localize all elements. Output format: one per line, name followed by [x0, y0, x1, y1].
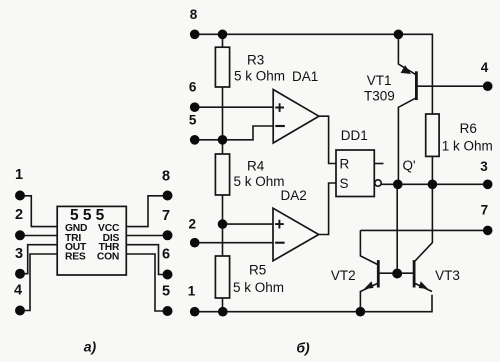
- svg-text:VT2: VT2: [331, 268, 356, 283]
- svg-text:555: 555: [70, 207, 108, 224]
- svg-text:DA1: DA1: [292, 69, 318, 84]
- svg-text:7: 7: [481, 202, 489, 217]
- svg-text:5: 5: [162, 284, 170, 300]
- svg-text:1 k Ohm: 1 k Ohm: [442, 139, 493, 154]
- svg-text:R: R: [340, 157, 350, 172]
- svg-text:DD1: DD1: [341, 128, 368, 143]
- svg-text:VT3: VT3: [435, 268, 460, 283]
- svg-text:VT1: VT1: [367, 73, 392, 88]
- svg-text:R6: R6: [460, 121, 477, 136]
- svg-text:R3: R3: [247, 53, 264, 68]
- svg-text:CON: CON: [97, 252, 119, 263]
- svg-text:RES: RES: [65, 252, 86, 263]
- svg-text:1: 1: [15, 167, 23, 183]
- svg-text:6: 6: [162, 247, 170, 263]
- svg-text:DA2: DA2: [281, 188, 307, 203]
- svg-text:5 k Ohm: 5 k Ohm: [234, 69, 285, 84]
- svg-text:3: 3: [480, 159, 488, 174]
- svg-text:S: S: [340, 176, 349, 191]
- svg-text:б): б): [296, 340, 310, 356]
- svg-text:2: 2: [15, 207, 23, 223]
- svg-text:R5: R5: [249, 262, 266, 277]
- svg-text:4: 4: [14, 283, 22, 299]
- svg-text:a): a): [84, 339, 97, 355]
- svg-text:1: 1: [188, 283, 196, 298]
- svg-text:T309: T309: [364, 88, 395, 103]
- svg-text:3: 3: [15, 246, 23, 262]
- svg-text:2: 2: [189, 217, 197, 232]
- svg-text:8: 8: [190, 7, 198, 22]
- svg-text:5: 5: [189, 112, 197, 127]
- svg-text:6: 6: [189, 79, 197, 94]
- svg-text:Q': Q': [403, 158, 416, 173]
- svg-text:5 k Ohm: 5 k Ohm: [234, 174, 285, 189]
- svg-text:5 k Ohm: 5 k Ohm: [233, 280, 284, 295]
- svg-text:7: 7: [162, 208, 170, 224]
- svg-text:R4: R4: [247, 159, 265, 174]
- svg-text:8: 8: [162, 169, 170, 185]
- svg-text:4: 4: [481, 60, 489, 75]
